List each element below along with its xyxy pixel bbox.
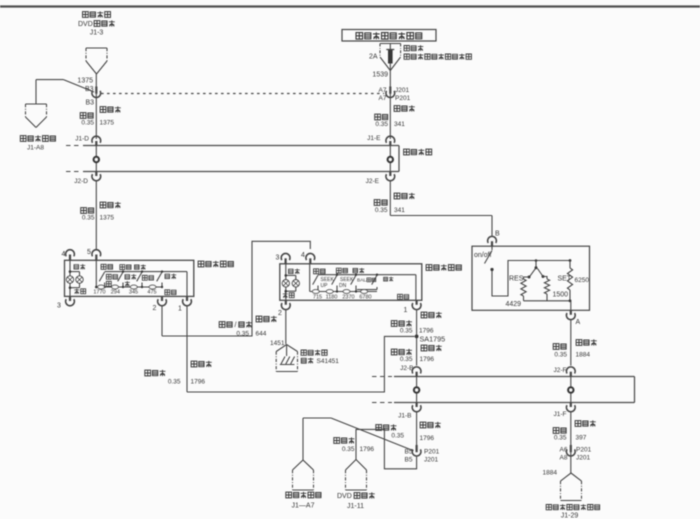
- svg-text:1375: 1375: [100, 215, 115, 222]
- svg-text:4: 4: [301, 252, 305, 259]
- svg-text:A7: A7: [379, 95, 387, 102]
- svg-text:1500: 1500: [553, 292, 569, 299]
- svg-text:J1-3: J1-3: [90, 30, 104, 37]
- svg-text:0.35: 0.35: [168, 379, 181, 386]
- svg-text:0.35: 0.35: [375, 207, 388, 214]
- svg-text:DVD: DVD: [337, 493, 352, 500]
- svg-text:BAL/: BAL/: [357, 278, 368, 284]
- svg-text:B3: B3: [85, 100, 94, 107]
- svg-text:J2-F: J2-F: [554, 367, 567, 374]
- svg-text:1375: 1375: [100, 120, 115, 127]
- svg-text:0.35: 0.35: [375, 121, 388, 128]
- svg-text:1884: 1884: [576, 352, 591, 359]
- svg-text:341: 341: [394, 121, 405, 128]
- svg-text:2: 2: [153, 305, 157, 312]
- svg-text:345: 345: [129, 290, 138, 296]
- svg-text:3: 3: [276, 255, 280, 262]
- svg-text:5: 5: [87, 249, 91, 256]
- svg-text:J1-E: J1-E: [367, 135, 381, 142]
- svg-text:SET: SET: [558, 276, 572, 283]
- svg-text:J1-11: J1-11: [347, 503, 364, 510]
- svg-text:J1—A7: J1—A7: [292, 503, 315, 510]
- svg-text:1796: 1796: [419, 328, 434, 335]
- svg-text:0.35: 0.35: [554, 352, 567, 359]
- svg-text:SA1795: SA1795: [420, 335, 446, 344]
- svg-text:0.35: 0.35: [400, 356, 413, 363]
- svg-text:1796: 1796: [420, 435, 435, 442]
- svg-text:6250: 6250: [575, 277, 590, 284]
- svg-text:P201: P201: [395, 95, 411, 102]
- svg-text:1770: 1770: [93, 290, 105, 296]
- svg-text:J201: J201: [576, 455, 590, 462]
- svg-text:2: 2: [278, 310, 282, 317]
- svg-text:J1-B: J1-B: [398, 413, 411, 420]
- svg-text:3: 3: [57, 303, 61, 310]
- svg-text:715: 715: [313, 294, 322, 300]
- svg-text:RES: RES: [509, 276, 524, 283]
- svg-text:A8: A8: [560, 455, 568, 462]
- svg-text:J201: J201: [424, 457, 438, 464]
- svg-text:S41451: S41451: [317, 358, 340, 365]
- svg-text:2A: 2A: [369, 54, 378, 61]
- svg-text:0.35: 0.35: [554, 435, 567, 442]
- svg-text:1796: 1796: [191, 379, 206, 386]
- svg-text:1796: 1796: [360, 446, 375, 453]
- svg-text:J201: J201: [395, 87, 409, 94]
- svg-text:0.35: 0.35: [82, 215, 95, 222]
- svg-text:J1-F: J1-F: [554, 411, 567, 418]
- svg-text:B: B: [495, 231, 500, 238]
- svg-text:1884: 1884: [543, 470, 558, 477]
- svg-text:UP: UP: [321, 283, 329, 289]
- svg-text:J1-A8: J1-A8: [27, 145, 44, 152]
- svg-text:397: 397: [576, 435, 587, 442]
- svg-text:J2-D: J2-D: [74, 178, 88, 185]
- svg-text:6780: 6780: [359, 294, 371, 300]
- svg-text:2370: 2370: [342, 294, 354, 300]
- svg-text:0.35: 0.35: [81, 120, 94, 127]
- svg-text:DVD: DVD: [78, 21, 93, 28]
- svg-text:A: A: [576, 319, 581, 326]
- svg-text:0.35: 0.35: [391, 433, 404, 440]
- svg-text:0.35: 0.35: [342, 446, 355, 453]
- svg-text:P201: P201: [576, 447, 592, 454]
- svg-text:1: 1: [178, 306, 182, 313]
- svg-text:1375: 1375: [77, 78, 93, 85]
- svg-text:1539: 1539: [372, 72, 388, 79]
- svg-text:4429: 4429: [506, 301, 522, 308]
- svg-text:1: 1: [404, 307, 408, 314]
- svg-text:0.35: 0.35: [236, 331, 249, 338]
- svg-text:J2-E: J2-E: [366, 178, 380, 185]
- svg-text:1180: 1180: [326, 294, 338, 300]
- svg-text:P201: P201: [424, 449, 440, 456]
- svg-text:1451: 1451: [270, 340, 285, 347]
- svg-text:/: /: [235, 322, 237, 329]
- svg-text:J1-29: J1-29: [561, 513, 579, 520]
- svg-text:DN: DN: [339, 283, 347, 289]
- svg-text:B5: B5: [405, 457, 413, 464]
- svg-text:644: 644: [256, 331, 267, 338]
- svg-text:475: 475: [147, 290, 156, 296]
- svg-text:1796: 1796: [420, 356, 435, 363]
- svg-text:0.35: 0.35: [400, 328, 413, 335]
- svg-text:J1-D: J1-D: [75, 136, 89, 143]
- svg-text:294: 294: [111, 290, 120, 296]
- svg-text:341: 341: [394, 207, 405, 214]
